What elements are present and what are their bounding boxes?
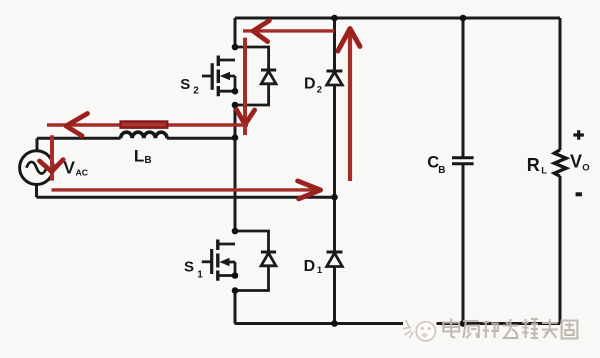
label RL	[527, 155, 547, 176]
wire S2 drain to top rail	[234, 18, 237, 47]
watermark text 电源研发精英圈 (approximated strokes)	[443, 319, 577, 339]
wire CB branch lower	[462, 165, 465, 324]
wire CB branch upper	[462, 18, 465, 157]
node S1 bottom	[232, 287, 239, 294]
resistor RL zigzag	[554, 150, 566, 177]
watermark logo face	[416, 322, 435, 341]
node CB bottom rail	[460, 320, 467, 327]
transistor S1	[202, 240, 235, 281]
node LB junction	[232, 134, 239, 141]
wire RL branch lower	[559, 176, 562, 324]
svg-text:B: B	[144, 155, 151, 166]
svg-text:2: 2	[193, 86, 199, 97]
svg-text:R: R	[527, 155, 540, 175]
label LB	[134, 147, 152, 166]
wire D2 branch lower to mid node	[333, 85, 336, 197]
node D1 bottom rail	[331, 320, 338, 327]
node S2 bottom	[232, 102, 239, 109]
svg-text:V: V	[570, 152, 582, 172]
diode D2	[327, 71, 343, 85]
node S2 source tap	[232, 88, 239, 95]
node S2 top	[232, 44, 239, 51]
diode D1	[327, 252, 343, 267]
inductor LB	[121, 132, 167, 138]
svg-text:B: B	[438, 165, 445, 176]
wire RL branch upper	[559, 18, 562, 150]
svg-text:L: L	[541, 165, 547, 176]
wire D1 branch upper from mid node	[333, 197, 336, 252]
wire switch node S2 bottom to S1 top	[234, 105, 237, 231]
svg-text:L: L	[134, 147, 144, 166]
wire mid return to D node	[37, 196, 335, 199]
label D1	[304, 258, 323, 276]
svg-text:D: D	[304, 76, 316, 93]
diode S2 antiparallel branch	[235, 47, 276, 105]
svg-text:O: O	[582, 162, 589, 173]
svg-text:1: 1	[317, 265, 323, 276]
svg-text:2: 2	[317, 84, 322, 95]
label D2	[304, 76, 322, 96]
diode S1 antiparallel branch	[235, 231, 276, 291]
current arrow down switch leg	[236, 38, 254, 135]
current arrow up beside D2	[338, 29, 360, 181]
label S1	[184, 258, 203, 280]
current arrow down through source	[40, 135, 64, 180]
node S1 source tap	[232, 272, 239, 279]
node CB top rail	[460, 15, 467, 22]
label VAC	[63, 158, 88, 178]
wire AC source top lead	[36, 138, 39, 151]
transistor S2	[202, 56, 235, 97]
svg-text:S: S	[180, 76, 190, 93]
current arrow top rail leftward	[243, 21, 335, 42]
wire AC top to inductor	[37, 137, 121, 140]
transistor S2 body arrow	[220, 72, 230, 81]
current arrow rightward mid return	[52, 181, 321, 199]
wire inductor to switch node	[167, 137, 235, 140]
svg-text:S: S	[184, 258, 194, 275]
node mid return D junction	[331, 194, 338, 201]
wire bottom rail	[235, 322, 561, 325]
watermark logo backing	[403, 317, 437, 345]
transistor S1 body arrow	[219, 258, 229, 267]
svg-text:V: V	[63, 158, 75, 178]
label minus polarity	[576, 192, 582, 196]
node S1 top	[232, 228, 239, 235]
capacitor CB plates	[452, 158, 474, 164]
svg-text:1: 1	[197, 270, 203, 281]
label VO	[570, 152, 590, 174]
svg-text:D: D	[304, 258, 316, 275]
wire AC source bottom lead	[35, 184, 38, 197]
wire D2 branch upper	[333, 18, 336, 71]
node junction dots	[232, 15, 467, 327]
current arrow leftward over inductor	[47, 114, 248, 136]
wire S1 bottom to bottom rail	[234, 291, 237, 324]
AC source VAC circle	[20, 151, 54, 185]
current highlight box over inductor	[121, 122, 168, 128]
label CB	[427, 153, 445, 176]
node D2 top rail	[331, 15, 338, 22]
label plus polarity	[573, 130, 584, 140]
svg-text:AC: AC	[76, 168, 89, 178]
wire D1 branch lower to bottom rail	[333, 267, 336, 324]
AC source sine wave	[26, 162, 46, 174]
label S2	[180, 76, 199, 96]
wire top rail	[235, 17, 560, 20]
watermark logo hand	[404, 321, 414, 338]
